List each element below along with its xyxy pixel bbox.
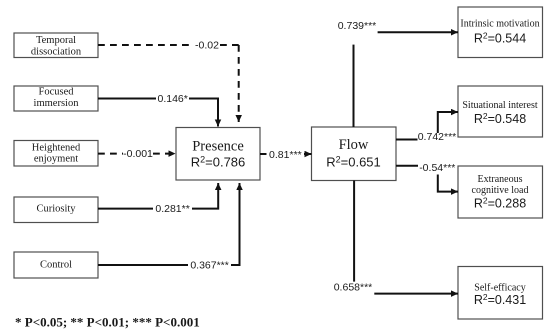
wire Flow to Extraneous cognitive load (-0.54***) [396,166,458,192]
svg-text:Intrinsic motivation: Intrinsic motivation [460,19,539,30]
svg-text:Situational interest: Situational interest [462,100,537,111]
node Presence [176,128,260,181]
wire Focused immersion to Presence (0.146*) [98,99,218,127]
svg-text:-0.02: -0.02 [195,40,219,52]
svg-text:Focused: Focused [39,87,75,98]
svg-text:R2=0.786: R2=0.786 [191,155,246,170]
svg-text:R2=0.431: R2=0.431 [474,292,526,307]
svg-text:Flow: Flow [339,137,369,153]
svg-text:-0.001: -0.001 [123,148,153,160]
wire Flow to Intrinsic motivation (0.739***) [354,32,459,127]
svg-text:R2=0.288: R2=0.288 [474,196,526,211]
svg-text:Curiosity: Curiosity [36,204,76,215]
svg-text:R2=0.651: R2=0.651 [326,155,381,170]
node Flow [312,127,397,181]
svg-text:cognitive load: cognitive load [472,185,529,196]
svg-text:immersion: immersion [34,98,80,109]
node Temporal dissociation [14,33,98,58]
svg-text:enjoyment: enjoyment [34,154,78,165]
svg-text:Control: Control [40,260,72,271]
wire Control to Presence (0.367***) [98,183,240,265]
svg-text:0.367***: 0.367*** [190,260,229,272]
node Focused immersion [14,86,98,111]
svg-text:0.742***: 0.742*** [418,131,457,143]
svg-text:dissociation: dissociation [31,47,82,58]
wire Heightened enjoyment to Presence (dashed) [98,153,176,155]
svg-text:0.81***: 0.81*** [269,149,302,161]
svg-text:Extraneous: Extraneous [478,174,523,185]
svg-text:Presence: Presence [192,139,244,155]
wire Flow to Self-efficacy (0.658***) [354,181,458,294]
wire Presence to Flow (0.81***) [260,153,312,155]
svg-text:Heightened: Heightened [32,143,81,154]
node Heightened enjoyment [14,141,98,167]
node Intrinsic motivation [458,7,543,58]
svg-text:* P<0.05; ** P<0.01; *** P<0.0: * P<0.05; ** P<0.01; *** P<0.001 [15,315,200,330]
node Extraneous cognitive load [458,166,543,218]
node Self-efficacy [458,267,543,320]
svg-text:R2=0.544: R2=0.544 [474,31,526,46]
svg-text:-0.54***: -0.54*** [419,162,455,174]
node Control [14,252,98,278]
svg-text:Temporal: Temporal [36,35,76,46]
svg-text:0.658***: 0.658*** [334,282,373,294]
wire Curiosity to Presence (0.281**) [98,183,218,209]
node Curiosity [14,197,98,223]
svg-text:0.739***: 0.739*** [338,20,377,32]
node Situational interest [458,86,543,137]
wire Temporal dissociation to Presence (dashed) [98,45,239,122]
svg-text:R2=0.548: R2=0.548 [474,111,526,126]
svg-text:0.146*: 0.146* [158,93,188,105]
svg-text:0.281**: 0.281** [155,203,189,215]
wire Flow to Situational interest (0.742***) [396,112,458,140]
